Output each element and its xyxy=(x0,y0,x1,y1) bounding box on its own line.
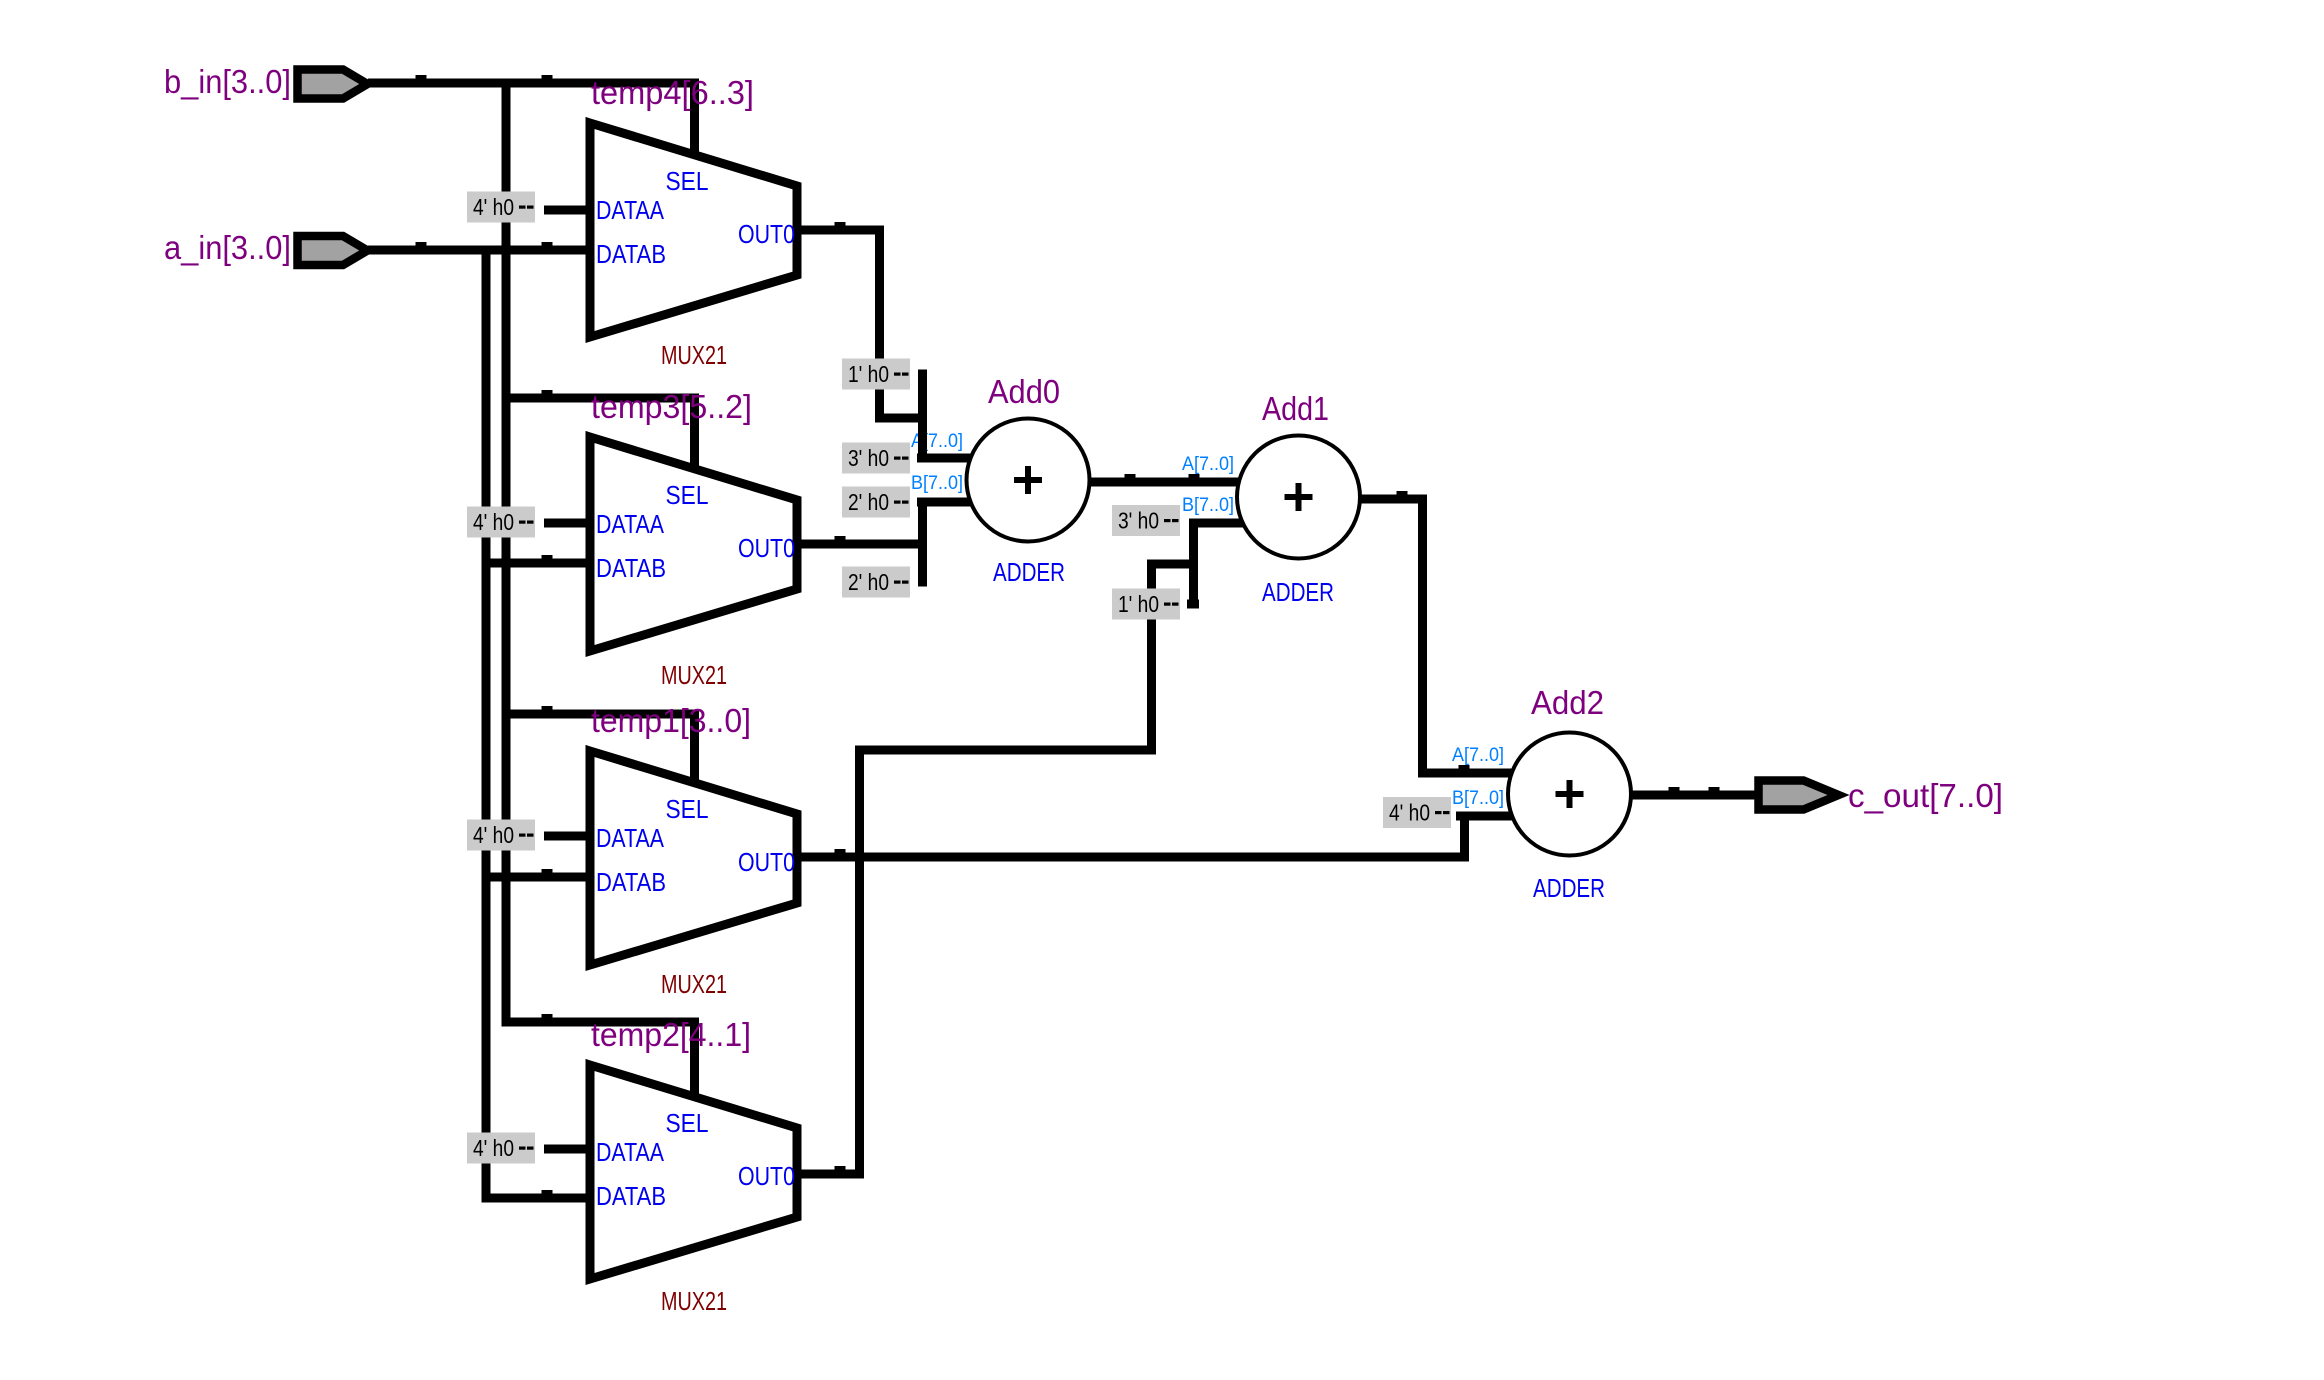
constant 2 h0 for Add0 B bits xyxy=(842,487,910,518)
svg-text:4' h0: 4' h0 xyxy=(473,509,514,535)
node port label a_in[3..0] xyxy=(164,229,291,266)
svg-text:MUX21: MUX21 xyxy=(661,660,727,690)
constant 1 h0 for Add0 A bit xyxy=(842,359,910,390)
mux MUX21 #4 (temp2) xyxy=(590,1065,797,1316)
wire net b_in horizontal from port to MUX1 SEL drop xyxy=(368,75,698,88)
wire net temp1 MUX3 OUT0 long horizontal xyxy=(797,849,1465,862)
svg-text:OUT0: OUT0 xyxy=(738,1161,795,1191)
wire net temp1 top horizontal to Add1 B chain xyxy=(855,519,1250,755)
wire net a_in branch to MUX2 DATAB xyxy=(482,555,593,568)
wire net temp4 MUX1 OUT0 to Add0 A xyxy=(797,222,975,463)
wire MUX4 DATAA stub xyxy=(544,1145,592,1154)
svg-text:MUX21: MUX21 xyxy=(661,1286,727,1316)
svg-text:OUT0: OUT0 xyxy=(738,847,795,877)
node type label ADDER of Add2 xyxy=(1533,873,1605,903)
svg-text:DATAB: DATAB xyxy=(596,553,666,583)
node pin label A[7..0] of Add1 xyxy=(1182,454,1234,475)
svg-text:SEL: SEL xyxy=(666,794,709,824)
svg-text:ADDER: ADDER xyxy=(993,557,1065,587)
constant 4 h0 for MUX2 DATAA xyxy=(467,507,535,538)
node net label temp2[4..1] xyxy=(591,1016,751,1053)
constant 4 h0 for Add2 B bits xyxy=(1383,797,1451,828)
wire net a_in horizontal from port to MUX1 DATAB xyxy=(368,242,592,255)
node type label ADDER of Add1 xyxy=(1262,577,1334,607)
wire net Add2 B input riser from temp1 line xyxy=(1456,812,1520,862)
wire MUX1 DATAA stub xyxy=(544,206,592,215)
svg-text:4' h0: 4' h0 xyxy=(473,822,514,848)
op-amp adder Add2 (ADDER circle) xyxy=(1508,733,1631,856)
node pin label B[7..0] of Add0 (under wires) xyxy=(911,473,963,494)
svg-text:B[7..0]: B[7..0] xyxy=(1452,788,1504,809)
constant 3 h0 for Add0 A bits xyxy=(842,443,910,474)
wire net a_in branch to MUX4 DATAB xyxy=(482,1190,593,1203)
svg-text:2' h0: 2' h0 xyxy=(848,489,889,515)
svg-text:DATAB: DATAB xyxy=(596,239,666,269)
node type label ADDER of Add0 xyxy=(993,557,1065,587)
mux MUX21 #3 (temp1) xyxy=(590,751,797,999)
constant 4 h0 for MUX1 DATAA xyxy=(467,192,535,223)
svg-text:A[7..0]: A[7..0] xyxy=(1452,745,1504,766)
svg-text:ADDER: ADDER xyxy=(1533,873,1605,903)
constant 4 h0 for MUX4 DATAA xyxy=(467,1133,535,1164)
svg-text:c_out[7..0]: c_out[7..0] xyxy=(1848,777,2003,814)
wire net Add0 result to Add1 A xyxy=(1085,474,1250,487)
svg-text:OUT0: OUT0 xyxy=(738,219,795,249)
svg-text:3' h0: 3' h0 xyxy=(848,445,889,471)
svg-text:MUX21: MUX21 xyxy=(661,969,727,999)
constant 4 h0 for MUX3 DATAA xyxy=(467,820,535,851)
node instance label Add0 xyxy=(988,373,1060,410)
op-amp adder Add1 (ADDER circle) xyxy=(1237,436,1360,559)
wire net b_in SEL drop into MUX1 xyxy=(690,79,699,168)
node pin label A[7..0] of Add2 xyxy=(1452,745,1504,766)
svg-text:OUT0: OUT0 xyxy=(738,533,795,563)
svg-text:3' h0: 3' h0 xyxy=(1118,508,1159,534)
wire net b_in vertical bus xyxy=(502,79,511,1027)
wire net temp2 MUX4 OUT0 to riser xyxy=(797,1166,864,1179)
svg-text:DATAA: DATAA xyxy=(596,1137,665,1167)
svg-text:temp4[6..3]: temp4[6..3] xyxy=(591,74,754,111)
wire net a_in vertical bus xyxy=(482,246,491,1203)
svg-text:2' h0: 2' h0 xyxy=(848,569,889,595)
node net label temp3[5..2] xyxy=(591,388,752,425)
svg-text:DATAA: DATAA xyxy=(596,823,665,853)
output port c_out[7..0] xyxy=(1759,781,1839,810)
input port a_in[3..0] xyxy=(298,236,368,265)
svg-text:B[7..0]: B[7..0] xyxy=(1182,495,1234,516)
svg-text:temp3[5..2]: temp3[5..2] xyxy=(591,388,752,425)
svg-text:4' h0: 4' h0 xyxy=(1389,800,1430,826)
wire net temp1 riser at x860 junction xyxy=(855,746,864,1179)
wire net Add1 result to Add2 A xyxy=(1355,491,1520,778)
node pin label B[7..0] of Add1 xyxy=(1182,495,1234,516)
svg-text:MUX21: MUX21 xyxy=(661,340,727,370)
svg-text:B[7..0]: B[7..0] xyxy=(911,473,963,494)
svg-text:temp2[4..1]: temp2[4..1] xyxy=(591,1016,751,1053)
svg-text:DATAA: DATAA xyxy=(596,195,665,225)
wire MUX2 DATAA stub xyxy=(544,519,592,528)
mux MUX21 #1 (temp4) xyxy=(590,123,797,370)
svg-text:temp1[3..0]: temp1[3..0] xyxy=(591,702,751,739)
svg-text:Add1: Add1 xyxy=(1262,390,1329,427)
svg-text:Add0: Add0 xyxy=(988,373,1060,410)
svg-text:ADDER: ADDER xyxy=(1262,577,1334,607)
svg-text:DATAA: DATAA xyxy=(596,509,665,539)
mux MUX21 #2 (temp3) xyxy=(590,437,797,690)
node net label temp4[6..3] xyxy=(591,74,754,111)
constant 3 h0 for Add1 B bits xyxy=(1112,505,1180,536)
op-amp adder Add0 (ADDER circle) xyxy=(967,419,1090,542)
node pin label B[7..0] of Add2 xyxy=(1452,788,1504,809)
node instance label Add2 xyxy=(1531,684,1604,721)
svg-text:1' h0: 1' h0 xyxy=(1118,591,1159,617)
constant 2 h0 for Add0 B bits low xyxy=(842,567,910,598)
node net label temp1[3..0] xyxy=(591,702,751,739)
wire net b_in branch to MUX3 SEL xyxy=(502,706,700,796)
node port label b_in[3..0] xyxy=(164,63,291,100)
wire net c_out from Add2 to output port xyxy=(1630,787,1760,800)
wire net b_in branch to MUX2 SEL xyxy=(502,390,700,482)
node port label c_out[7..0] xyxy=(1848,777,2003,814)
svg-text:b_in[3..0]: b_in[3..0] xyxy=(164,63,291,100)
svg-text:1' h0: 1' h0 xyxy=(848,361,889,387)
input port b_in[3..0] xyxy=(298,70,368,99)
wire net b_in branch to MUX4 SEL xyxy=(502,1014,700,1110)
svg-text:SEL: SEL xyxy=(666,480,709,510)
svg-text:4' h0: 4' h0 xyxy=(473,1135,514,1161)
node instance label Add1 xyxy=(1262,390,1329,427)
wire MUX3 DATAA stub xyxy=(544,832,592,841)
svg-text:a_in[3..0]: a_in[3..0] xyxy=(164,229,291,266)
node pin label A[7..0] of Add0 (under wires) xyxy=(911,431,963,452)
svg-text:SEL: SEL xyxy=(666,166,709,196)
constant 1 h0 for Add1 B bit xyxy=(1112,589,1180,620)
svg-text:DATAB: DATAB xyxy=(596,1181,666,1211)
svg-text:SEL: SEL xyxy=(666,1108,709,1138)
svg-text:A[7..0]: A[7..0] xyxy=(1182,454,1234,475)
wire net a_in branch to MUX3 DATAB xyxy=(482,869,593,882)
svg-text:DATAB: DATAB xyxy=(596,867,666,897)
svg-text:Add2: Add2 xyxy=(1531,684,1604,721)
svg-text:4' h0: 4' h0 xyxy=(473,194,514,220)
wire net temp3 MUX2 OUT0 to Add0 B xyxy=(797,498,975,587)
